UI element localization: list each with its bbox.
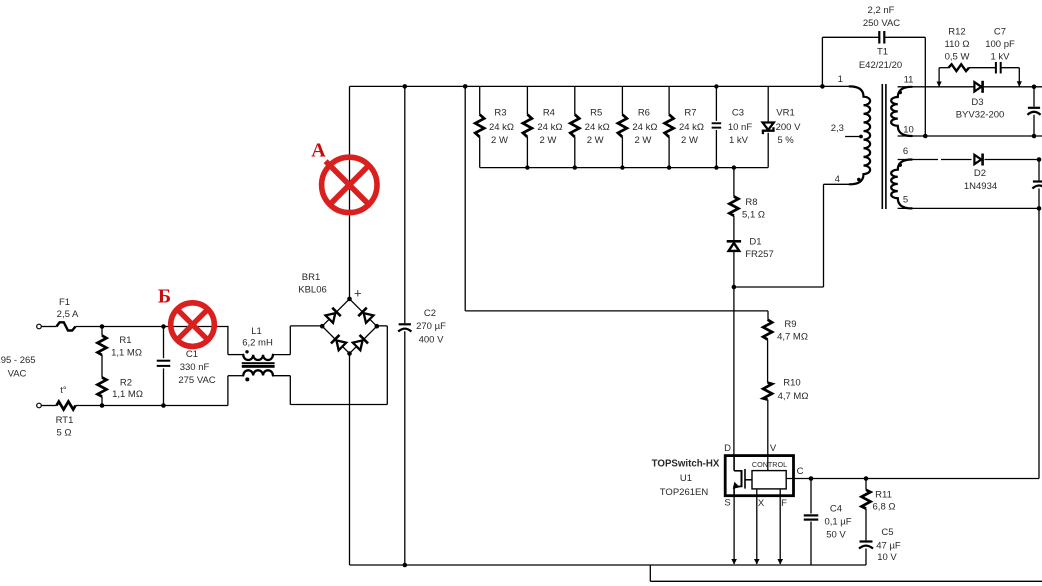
- svg-text:1N4934: 1N4934: [964, 181, 997, 192]
- node 2.2nF tap junction: [820, 84, 825, 89]
- svg-text:100 pF: 100 pF: [985, 39, 1015, 50]
- node C3 top junction: [714, 84, 718, 88]
- diode D3: [974, 82, 981, 91]
- svg-text:R12: R12: [948, 27, 965, 38]
- top rail (HV+): [350, 85, 851, 87]
- wire clamp to primary pin4: [734, 286, 824, 288]
- svg-text:5 %: 5 %: [777, 135, 794, 146]
- ladder bottom junction dots: [525, 165, 529, 169]
- svg-text:6: 6: [903, 146, 908, 157]
- capacitor 2.2nF 250VAC: [821, 37, 823, 86]
- resistor R4: [526, 86, 528, 114]
- svg-text:R5: R5: [590, 108, 602, 119]
- svg-text:R3: R3: [494, 108, 506, 119]
- wire RT1 to L1 (bottom): [76, 405, 228, 407]
- svg-text:R4: R4: [543, 108, 555, 119]
- wire bridge- down to bottom rail: [349, 354, 351, 566]
- svg-text:24 kΩ: 24 kΩ: [679, 122, 704, 133]
- IC U1 outline: [725, 456, 793, 496]
- svg-text:330 nF: 330 nF: [180, 362, 210, 373]
- wire R10 to V pin: [767, 400, 769, 471]
- svg-text:F: F: [781, 498, 787, 509]
- wire X pin: [756, 489, 758, 564]
- inductor L1 upper winding: [243, 355, 273, 360]
- svg-text:X: X: [758, 498, 765, 509]
- svg-text:RT1: RT1: [56, 415, 74, 426]
- wire R9 to R10: [767, 340, 769, 383]
- pin6 rail with D2: [898, 159, 938, 161]
- svg-text:D3: D3: [971, 97, 983, 108]
- resistor R6: [621, 86, 623, 114]
- capacitor bias filter: [1038, 160, 1040, 181]
- svg-text:24 kΩ: 24 kΩ: [489, 122, 514, 133]
- svg-text:10: 10: [903, 125, 914, 136]
- svg-text:R9: R9: [784, 319, 796, 330]
- svg-text:KBL06: KBL06: [298, 285, 327, 296]
- svg-text:2 W: 2 W: [539, 135, 556, 146]
- svg-text:t°: t°: [60, 385, 67, 396]
- T1 secondary lower phase dot: [898, 163, 902, 167]
- wire S pin: [733, 496, 735, 564]
- wire L1 top lead-in: [228, 354, 243, 356]
- wire F pin: [779, 489, 781, 564]
- svg-text:6,8 Ω: 6,8 Ω: [873, 502, 896, 513]
- svg-text:10 nF: 10 nF: [728, 122, 752, 133]
- svg-text:TOPSwitch-HX: TOPSwitch-HX: [652, 459, 720, 470]
- svg-text:VR1: VR1: [776, 108, 794, 119]
- wire divider from top rail: [464, 86, 466, 311]
- node C2 bottom junction: [403, 563, 408, 568]
- node pin5 rail junction: [1037, 206, 1042, 211]
- thermistor RT1: [57, 402, 76, 410]
- svg-text:11: 11: [904, 75, 914, 86]
- svg-text:L1: L1: [251, 326, 262, 337]
- wire C1 to L1 lower: [227, 376, 229, 406]
- svg-text:2 W: 2 W: [491, 135, 508, 146]
- resistor R11: [865, 479, 867, 490]
- svg-text:TOP261EN: TOP261EN: [660, 487, 709, 498]
- resistor R1: [98, 336, 107, 356]
- capacitor C3: [715, 86, 717, 121]
- svg-text:1 kV: 1 kV: [729, 135, 749, 146]
- node junction C1 top: [161, 324, 166, 329]
- svg-text:10 V: 10 V: [877, 552, 897, 563]
- red X marker Б: [171, 303, 215, 347]
- svg-text:4: 4: [835, 174, 840, 185]
- pin11 output rail: [898, 86, 1042, 88]
- bottom rail (primary return): [350, 564, 867, 566]
- fuse F1: [57, 322, 76, 330]
- svg-text:R10: R10: [783, 378, 800, 389]
- svg-text:R2: R2: [120, 378, 132, 389]
- capacitor C2: [404, 86, 406, 323]
- svg-text:1 kV: 1 kV: [990, 52, 1010, 63]
- lower return rail: [650, 580, 1042, 582]
- pin5 rail: [898, 207, 1039, 209]
- svg-text:4,7 MΩ: 4,7 MΩ: [777, 332, 808, 343]
- capacitor C4: [810, 479, 812, 514]
- wire C1 to L1 upper: [227, 326, 229, 355]
- svg-text:D: D: [724, 443, 731, 454]
- wire neutral terminal to RT1: [41, 405, 56, 407]
- svg-text:200 V: 200 V: [776, 122, 801, 133]
- svg-text:R1: R1: [119, 335, 131, 346]
- svg-text:S: S: [724, 498, 730, 509]
- svg-text:5: 5: [903, 195, 908, 206]
- svg-text:275 VAC: 275 VAC: [178, 375, 215, 386]
- node D2 output junction: [1037, 157, 1042, 162]
- svg-text:0,5 W: 0,5 W: [945, 52, 970, 63]
- svg-text:5,1 Ω: 5,1 Ω: [742, 210, 765, 221]
- svg-text:BR1: BR1: [302, 272, 320, 283]
- node C4 junction: [809, 476, 814, 481]
- svg-text:D2: D2: [974, 168, 986, 179]
- T1 primary winding: [850, 86, 871, 184]
- capacitor output upper: [1033, 87, 1035, 107]
- svg-text:6,2 mH: 6,2 mH: [242, 338, 273, 349]
- svg-text:250 VAC: 250 VAC: [863, 18, 900, 29]
- U1 MOSFET: [733, 456, 735, 471]
- BR1 diode bottom-right: [352, 335, 368, 351]
- L1 phase dot upper: [245, 350, 248, 353]
- wire L1 lower out: [273, 375, 290, 377]
- wire pin4 stub: [824, 183, 851, 185]
- BR1 diode bottom-left: [331, 335, 347, 351]
- svg-text:2 W: 2 W: [681, 135, 698, 146]
- bridge rectifier BR1 outline: [322, 299, 377, 354]
- svg-text:195 - 265: 195 - 265: [0, 355, 36, 366]
- wire drain line D1 to U1: [733, 287, 735, 456]
- node top rail divider junction: [463, 84, 468, 89]
- node AC input live terminal: [37, 324, 42, 329]
- node D1 anode junction: [732, 285, 737, 290]
- svg-text:VAC: VAC: [8, 369, 27, 380]
- svg-text:2,5 A: 2,5 A: [57, 309, 79, 320]
- svg-text:C3: C3: [732, 108, 744, 119]
- svg-text:2,3: 2,3: [831, 123, 844, 134]
- bottom rail jog: [649, 565, 651, 581]
- svg-text:D1: D1: [749, 237, 761, 248]
- BR1 diode top-left: [325, 308, 341, 324]
- svg-text:C: C: [797, 466, 804, 477]
- node junction R2 bottom: [100, 403, 105, 408]
- T1 secondary winding lower: [891, 160, 912, 209]
- svg-text:U1: U1: [680, 473, 692, 484]
- svg-text:F1: F1: [59, 297, 70, 308]
- svg-text:T1: T1: [877, 47, 888, 58]
- node 2.2nF to pin10 junction: [923, 134, 928, 139]
- node AC input neutral terminal: [37, 403, 42, 408]
- svg-text:V: V: [770, 443, 777, 454]
- inductor L1 lower winding: [243, 370, 273, 375]
- svg-text:C7: C7: [994, 27, 1006, 38]
- wire L1 upper out to bridge: [289, 326, 291, 355]
- resistor R2: [98, 378, 107, 397]
- svg-text:110 Ω: 110 Ω: [945, 39, 970, 50]
- svg-text:BYV32-200: BYV32-200: [956, 110, 1005, 121]
- T1 primary phase dot: [857, 178, 861, 182]
- zener VR1: [767, 86, 769, 122]
- wire fuse to L1 (top): [76, 326, 228, 328]
- svg-text:+: +: [354, 286, 362, 301]
- svg-text:CONTROL: CONTROL: [752, 460, 787, 469]
- snubber R12 C7: [938, 68, 940, 87]
- resistor R8: [733, 168, 735, 197]
- node junction C1 bottom: [161, 403, 166, 408]
- svg-text:R7: R7: [684, 108, 696, 119]
- L1 phase dot lower: [245, 377, 249, 381]
- svg-text:C1: C1: [186, 349, 198, 360]
- resistor R3: [479, 86, 481, 114]
- wire bridge right vertex loop: [386, 326, 388, 405]
- ladder bottom rail: [480, 167, 769, 169]
- svg-text:E42/21/20: E42/21/20: [859, 60, 902, 71]
- wire live terminal to fuse: [41, 326, 56, 328]
- svg-text:А: А: [311, 140, 326, 162]
- BR1 diode top-right: [358, 308, 374, 324]
- svg-text:1: 1: [838, 74, 843, 85]
- resistor R9: [763, 320, 772, 340]
- red X marker А: [322, 157, 377, 212]
- capacitor C1: [163, 327, 165, 359]
- diode D1: [733, 216, 735, 242]
- svg-text:24 kΩ: 24 kΩ: [632, 122, 657, 133]
- svg-text:24 kΩ: 24 kΩ: [585, 122, 610, 133]
- transformer T1 core: [881, 84, 883, 209]
- node top rail C2 junction: [403, 84, 408, 89]
- svg-text:5 Ω: 5 Ω: [56, 428, 71, 439]
- node junction R1 top: [100, 324, 105, 329]
- T1 pin 2,3 tap: [845, 136, 861, 138]
- wire R1 to R2: [101, 355, 103, 378]
- svg-text:1,1 MΩ: 1,1 MΩ: [111, 348, 142, 359]
- svg-text:24 kΩ: 24 kΩ: [537, 122, 562, 133]
- wire C pin: [786, 478, 1039, 480]
- L1 core: [242, 362, 275, 364]
- node output cap top junction: [1032, 85, 1037, 90]
- svg-text:2,2 nF: 2,2 nF: [868, 5, 895, 16]
- BR1 vertex dots: [347, 297, 352, 302]
- resistor R7: [668, 86, 670, 114]
- T1 secondary winding upper: [891, 87, 912, 136]
- svg-text:2 W: 2 W: [634, 135, 651, 146]
- wire bridge+ up to top rail: [349, 86, 351, 299]
- node R11 junction: [864, 476, 869, 481]
- svg-text:R8: R8: [745, 197, 757, 208]
- svg-text:0,1 µF: 0,1 µF: [824, 517, 851, 528]
- svg-text:2 W: 2 W: [587, 135, 604, 146]
- svg-text:400 V: 400 V: [419, 335, 444, 346]
- node output cap bottom junction: [1032, 134, 1037, 139]
- svg-text:Б: Б: [158, 286, 171, 308]
- svg-text:47 µF: 47 µF: [876, 541, 901, 552]
- svg-text:270 µF: 270 µF: [416, 321, 446, 332]
- svg-text:1,1 MΩ: 1,1 MΩ: [112, 389, 143, 400]
- svg-text:50 V: 50 V: [826, 530, 846, 541]
- svg-text:R6: R6: [638, 108, 650, 119]
- resistor R10: [763, 383, 772, 400]
- svg-text:C4: C4: [830, 504, 842, 515]
- pin10 return rail: [898, 135, 1042, 137]
- svg-text:4,7 MΩ: 4,7 MΩ: [778, 391, 809, 402]
- svg-text:C5: C5: [881, 527, 893, 538]
- U1 control block: [752, 471, 786, 489]
- capacitor C5: [865, 509, 867, 541]
- svg-text:FR257: FR257: [745, 249, 774, 260]
- resistor R5: [574, 86, 576, 114]
- svg-text:R11: R11: [875, 490, 892, 501]
- svg-text:C2: C2: [424, 308, 436, 319]
- T1 secondary upper phase dot: [898, 91, 902, 95]
